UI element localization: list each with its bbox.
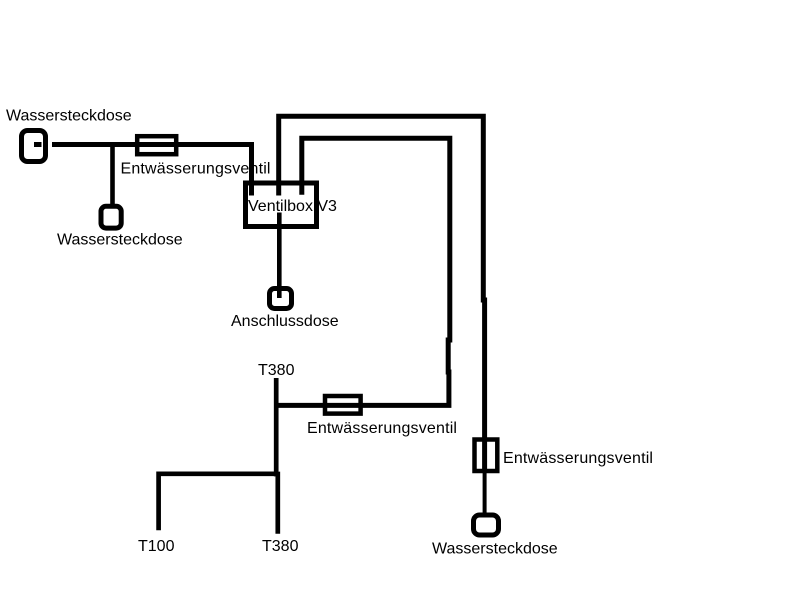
- valve V3r (right Entwässerungsventil, vertical): [475, 440, 498, 472]
- svg-text:Wassersteckdose: Wassersteckdose: [432, 541, 558, 558]
- wire W4: Ventilbox up, across top, down right side to right valve: [279, 116, 485, 473]
- water socket S1 (top left Wassersteckdose): [22, 131, 46, 162]
- wire W7: branch to T100 (horizontal + left vertical): [159, 474, 278, 531]
- socket S1 inner contact dash: [34, 142, 42, 147]
- svg-text:Ventilbox V3: Ventilbox V3: [248, 198, 337, 215]
- svg-text:Anschlussdose: Anschlussdose: [231, 313, 339, 330]
- water socket S2 (second Wassersteckdose): [101, 206, 121, 228]
- svg-text:Wassersteckdose: Wassersteckdose: [6, 108, 132, 125]
- svg-text:T380: T380: [258, 362, 295, 379]
- connection box socket S3 (Anschlussdose): [270, 289, 292, 309]
- svg-text:T100: T100: [138, 538, 175, 555]
- valve V1 (upper Entwässerungsventil): [137, 136, 176, 154]
- wire W1: socket S1 to corner, down into Ventilbox: [52, 145, 252, 196]
- svg-text:Entwässerungsventil: Entwässerungsventil: [503, 450, 653, 467]
- water socket S4 (bottom right Wassersteckdose): [474, 515, 499, 535]
- valve V2 (middle Entwässerungsventil): [325, 396, 361, 414]
- wire W5: Ventilbox up, across inner top, down to middle horizontal run: [276, 138, 450, 405]
- wire W4b: below right valve down to socket S4: [483, 473, 487, 516]
- svg-text:T380: T380: [262, 538, 299, 555]
- wire W4c: Ventilbox outlet down to Anschlussdose S3: [277, 213, 282, 299]
- svg-text:Wassersteckdose: Wassersteckdose: [57, 232, 183, 249]
- wire W2: junction riser down to socket S2: [110, 145, 115, 207]
- wire W6: T380 riser down through junction: [276, 378, 278, 534]
- svg-text:Entwässerungsventil: Entwässerungsventil: [307, 420, 457, 437]
- svg-text:Entwässerungsventil: Entwässerungsventil: [121, 161, 271, 178]
- Ventilbox V3 box: [246, 183, 317, 227]
